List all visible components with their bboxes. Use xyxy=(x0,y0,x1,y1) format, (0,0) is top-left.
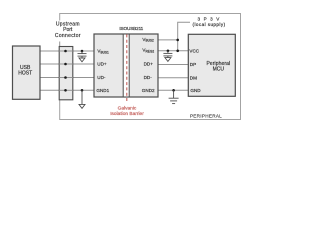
barrier right line xyxy=(128,34,130,97)
node UD+ at connector xyxy=(64,63,67,66)
barrier left line xyxy=(122,34,124,97)
svg-text:GND: GND xyxy=(190,88,201,93)
wire 3P3V supply xyxy=(178,22,190,51)
isolation gap white strip xyxy=(123,35,129,97)
svg-text:UD-: UD- xyxy=(97,75,106,80)
wire GND1 through connector xyxy=(59,89,73,91)
peripheral MCU box xyxy=(188,34,235,96)
svg-text:DD-: DD- xyxy=(144,75,153,80)
node GND1 ground tap xyxy=(81,89,84,92)
node VREG2 cap tap xyxy=(167,50,170,53)
wire GND2 to GND xyxy=(158,89,188,91)
wire GND1 xyxy=(40,89,94,91)
wire UD- through connector xyxy=(59,77,73,79)
wire DD+ to DP xyxy=(158,64,188,66)
wire UD+ xyxy=(40,63,94,65)
wire UD/VBUS host-to-chip bundle xyxy=(40,22,190,90)
capacitor C2 on VREG2 with earth ground xyxy=(163,51,172,62)
connector J1 upstream port xyxy=(59,47,73,100)
wire VREG2 to VCC xyxy=(158,50,188,52)
node supply tap on VREG2 xyxy=(176,50,179,53)
svg-text:GND1: GND1 xyxy=(96,88,109,93)
wire VBUS2 to supply xyxy=(158,39,178,41)
wire VBUS through connector xyxy=(59,50,73,52)
galvanic isolation barrier red dashed line xyxy=(126,34,128,102)
USB host box xyxy=(13,46,41,99)
svg-text:3 P 3 V: 3 P 3 V xyxy=(198,17,221,22)
peripheral enclosure outline xyxy=(60,14,241,120)
wire VBUS host to chip xyxy=(40,50,94,52)
wire connector label leader xyxy=(59,42,61,47)
svg-text:(local supply): (local supply) xyxy=(193,22,226,27)
svg-text:ISOUSB211: ISOUSB211 xyxy=(119,26,143,31)
svg-text:DD+: DD+ xyxy=(144,62,154,67)
svg-text:VCC: VCC xyxy=(189,49,199,54)
ground earth below GND1 wire xyxy=(79,90,85,108)
node supply tap on VBUS2 xyxy=(176,39,179,42)
wire UD+ through connector xyxy=(59,63,73,65)
wire DD- to DM xyxy=(158,77,188,79)
node VBUS cap tap xyxy=(81,50,84,53)
node VBUS at connector xyxy=(64,50,67,53)
svg-text:DP: DP xyxy=(190,62,196,67)
IC U1 ISOUSB211 isolator body xyxy=(94,34,158,97)
node UD- at connector xyxy=(64,76,67,79)
svg-text:MCU: MCU xyxy=(213,67,225,73)
svg-text:Isolation Barrier: Isolation Barrier xyxy=(110,111,144,117)
ground signal below GND2 wire xyxy=(169,90,179,103)
svg-text:Connector: Connector xyxy=(55,33,81,39)
wire UD- xyxy=(40,77,94,79)
node GND1 at connector xyxy=(64,89,67,92)
svg-text:Galvanic: Galvanic xyxy=(118,105,137,111)
svg-text:GND2: GND2 xyxy=(142,88,155,93)
node GND2 ground tap xyxy=(172,89,175,92)
svg-text:UD+: UD+ xyxy=(97,62,107,67)
svg-text:HOST: HOST xyxy=(18,70,32,76)
capacitor C1 on VBUS with earth ground xyxy=(78,51,87,62)
svg-text:PERIPHERAL: PERIPHERAL xyxy=(190,113,222,118)
svg-text:DM: DM xyxy=(190,75,197,80)
node junction dots xyxy=(64,39,179,92)
